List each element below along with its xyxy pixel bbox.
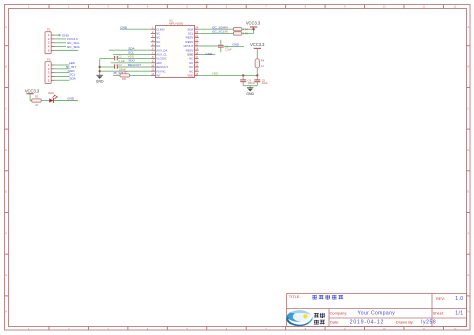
wire SDA pin to R6	[199, 28, 234, 30]
resistor R5	[233, 32, 242, 35]
U1 right pin 18 (GND)	[195, 53, 199, 55]
wire REGOUT row left segment	[100, 66, 115, 68]
capacitor C5	[256, 75, 258, 79]
wire SCL to AUX_CL	[113, 53, 151, 55]
svg-text:C3: C3	[118, 63, 122, 67]
wire C4/C5 bottom join	[243, 85, 257, 87]
wire P1.5	[55, 49, 79, 51]
node: C4 junction	[242, 74, 244, 76]
svg-text:D: D	[5, 148, 7, 152]
title block logo cell divider	[328, 309, 330, 327]
wire R6 to VCC rail	[242, 28, 254, 30]
U1 right pin 20 (CPOUT)	[195, 45, 199, 47]
connector P1	[45, 32, 51, 54]
U1 left pin 10 (REGOUT)	[151, 66, 155, 68]
wire SCL pin to R5	[199, 32, 234, 34]
U1 left pin 3 (NC)	[151, 37, 155, 39]
svg-text:R5: R5	[225, 30, 229, 34]
wire VCC stem to row	[29, 94, 31, 101]
svg-text:VCC3.3: VCC3.3	[250, 42, 265, 47]
svg-text:C2: C2	[118, 55, 122, 59]
capacitor C1 vertical stems	[220, 40, 222, 45]
svg-text:Your Company: Your Company	[358, 310, 396, 316]
node: rail junction at REGOUT row	[99, 66, 101, 68]
node: SDA/VCC junction	[252, 28, 254, 30]
svg-text:REV:: REV:	[436, 296, 445, 301]
svg-text:REGOUT: REGOUT	[128, 63, 141, 67]
U1 left pin 11 (FSYNC)	[151, 70, 155, 72]
svg-text:1/1: 1/1	[455, 310, 463, 316]
svg-text:A: A	[5, 25, 7, 29]
wire VLOGIC row left segment	[100, 58, 115, 60]
U1 left pin 8 (VLOGIC)	[151, 58, 155, 60]
svg-text:100nF: 100nF	[248, 81, 256, 85]
svg-text:2.2nF: 2.2nF	[225, 47, 232, 51]
wire P1.2	[55, 38, 66, 40]
svg-text:GND: GND	[246, 92, 254, 96]
svg-text:10K: 10K	[122, 77, 127, 81]
U1 left pin 12 (INT)	[151, 74, 155, 76]
svg-text:GND: GND	[232, 42, 240, 46]
wire P1.1 to GND netport	[55, 34, 59, 36]
capacitor C1 plates	[218, 44, 224, 46]
U1 left pin 6 (AUX_DA)	[151, 49, 155, 51]
resistor R6	[233, 28, 242, 31]
company logo swirl	[286, 310, 313, 326]
wire R7 to INT pin	[130, 74, 151, 76]
wire VDD to VLOGIC	[118, 58, 151, 60]
wire SDA to AUX_DA	[109, 49, 151, 51]
svg-text:4.7K: 4.7K	[243, 32, 249, 36]
U1 right pin 16 (NC)	[195, 62, 199, 64]
svg-text:Date:: Date:	[330, 320, 339, 325]
wire R4 to VDD row	[256, 68, 258, 76]
svg-text:1.0: 1.0	[455, 296, 463, 302]
U1 right pin 23 (SCL)	[195, 32, 199, 34]
op-amp U1 body: MPU-6050 IC	[156, 26, 195, 78]
wire GND to CLKIN	[120, 28, 151, 30]
wire P2.3	[55, 72, 70, 74]
svg-text:Drawn By:: Drawn By:	[396, 320, 414, 325]
wire LED1 to GND	[53, 100, 78, 102]
svg-text:INT: INT	[156, 73, 161, 77]
ground (C4/C5)	[247, 88, 253, 92]
power VCC3.3 (VDD branch)	[254, 47, 261, 49]
svg-text:C: C	[467, 106, 469, 110]
svg-text:D: D	[467, 148, 469, 152]
capacitor C2	[114, 56, 116, 60]
svg-text:SDO: SDO	[128, 58, 135, 62]
resistor R4	[255, 59, 259, 68]
node: C5/R4 junction	[256, 74, 258, 76]
title block right column divider	[431, 294, 433, 327]
U1 left pin 1 (CLKIN)	[151, 28, 155, 30]
node: rail junction at FSYNC row	[99, 70, 101, 72]
svg-text:VDD: VDD	[187, 73, 193, 77]
svg-text:C: C	[5, 106, 7, 110]
resistor R3	[32, 99, 42, 102]
wire to ground (caps)	[249, 86, 251, 88]
svg-text:LED1: LED1	[48, 91, 55, 95]
U1 left pin 9 (AD0)	[151, 62, 155, 64]
title block outer	[287, 294, 467, 327]
svg-text:2019-04-12: 2019-04-12	[350, 320, 385, 326]
svg-text:I2C_SDA: I2C_SDA	[67, 45, 81, 49]
svg-text:TITLE:: TITLE:	[289, 294, 301, 299]
title block row line 2	[329, 317, 467, 319]
svg-text:B: B	[5, 65, 7, 69]
svg-text:ly258: ly258	[421, 320, 436, 326]
svg-text:G: G	[467, 273, 469, 277]
svg-text:SDA: SDA	[69, 76, 76, 80]
svg-text:GND: GND	[96, 79, 104, 83]
svg-text:1K: 1K	[35, 103, 38, 107]
svg-text:VCC3.3: VCC3.3	[25, 89, 40, 94]
U1 right pin 21 (RESV)	[195, 41, 199, 43]
U1 left pin 2 (NC)	[151, 32, 155, 34]
resistor R7	[120, 74, 130, 77]
frame row ticks and letters	[5, 45, 9, 47]
wire SDO to AD0	[111, 62, 151, 64]
ground (left rail)	[97, 75, 103, 79]
wire GND pin net	[199, 53, 216, 55]
wire VCC to R3	[30, 100, 32, 102]
svg-text:GND: GND	[67, 97, 75, 101]
svg-text:P1: P1	[47, 28, 51, 32]
svg-text:VCC3.3: VCC3.3	[246, 21, 261, 26]
frame column ticks and numbers	[48, 5, 50, 9]
wire P2.2	[55, 68, 70, 70]
U1 right pin 15 (NC)	[195, 66, 199, 68]
svg-text:R3: R3	[35, 95, 39, 99]
svg-text:H: H	[5, 309, 7, 313]
power VCC3.3 (pullups)	[250, 26, 257, 28]
svg-text:GND: GND	[120, 25, 128, 29]
wire VCC3.3 stem (pullups)	[253, 27, 255, 33]
svg-text:4.7K: 4.7K	[243, 27, 249, 31]
svg-text:I2C_SCL: I2C_SCL	[212, 30, 225, 34]
U1 left pin 4 (NC)	[151, 41, 155, 43]
capacitor C3	[114, 64, 116, 68]
U1 left pin 7 (AUX_CL)	[151, 53, 155, 55]
wire VDD row	[199, 74, 258, 76]
company logo Chinese characters	[314, 313, 319, 317]
U1 right pin 24 (SDA)	[195, 28, 199, 30]
wire P2.4	[55, 75, 70, 77]
svg-text:P2: P2	[47, 58, 51, 62]
wire FSYNC to GND rail	[100, 70, 151, 72]
wire GND rail vertical	[99, 59, 101, 75]
wire P2.1	[55, 64, 70, 66]
capacitor C4	[242, 75, 244, 79]
LED LED1	[49, 95, 57, 103]
U1 right pin 14 (NC)	[195, 70, 199, 72]
power VCC3.3 (LED)	[27, 93, 34, 95]
svg-text:VDD: VDD	[212, 72, 219, 76]
U1 right pin 13 (VDD)	[195, 74, 199, 76]
svg-text:H: H	[467, 309, 469, 313]
svg-text:E: E	[5, 190, 7, 194]
svg-text:R4: R4	[261, 58, 265, 62]
U1 left pin 5 (NC)	[151, 45, 155, 47]
svg-text:Company:: Company:	[330, 310, 348, 315]
svg-text:GND: GND	[205, 52, 213, 56]
svg-text:MPU-6050: MPU-6050	[169, 22, 184, 26]
svg-text:B: B	[468, 65, 470, 69]
wire 3F_INT to R7	[113, 74, 120, 76]
svg-text:G: G	[5, 273, 7, 277]
svg-text:E: E	[468, 190, 470, 194]
title block row line 1	[287, 308, 467, 310]
wire P1.3	[55, 42, 66, 44]
svg-text:R7: R7	[124, 71, 128, 75]
wire P1.4	[55, 46, 66, 48]
wire VCC to R4	[256, 48, 258, 58]
U1 right pin 17 (NC)	[195, 58, 199, 60]
wire R5 to VCC rail	[242, 32, 254, 34]
wire R3 to LED1	[41, 100, 49, 102]
U1 right pin 19 (RESV)	[195, 49, 199, 51]
svg-text:A: A	[468, 25, 470, 29]
U1 right pin 22 (RESV)	[195, 37, 199, 39]
wire REGOUT net to REGOUT pin	[118, 66, 151, 68]
svg-text:R6: R6	[225, 25, 229, 29]
wire C1 to GND label	[224, 45, 244, 47]
svg-text:10uF: 10uF	[262, 81, 268, 85]
connector P2	[45, 62, 51, 84]
schematic title (Chinese)	[312, 295, 317, 299]
wire P2.5	[55, 79, 70, 81]
svg-text:Sheet:: Sheet:	[433, 310, 444, 315]
wire CPOUT to C1	[199, 45, 219, 47]
